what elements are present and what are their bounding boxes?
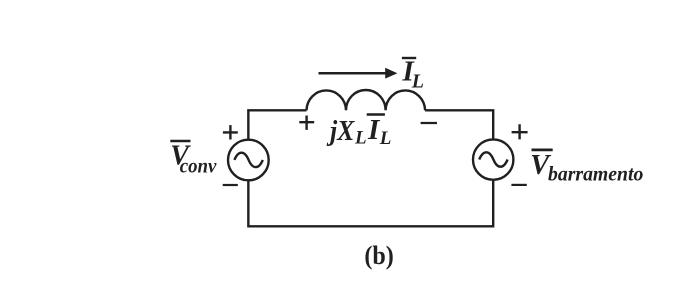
minus sign of V_barramento xyxy=(511,184,526,186)
overbar of V_barramento xyxy=(532,149,553,152)
wire top-right segment xyxy=(425,110,493,140)
wire bottom xyxy=(248,180,493,226)
minus sign of V_conv xyxy=(223,184,238,186)
sine wave inside V_conv xyxy=(234,153,262,167)
sine wave inside V_barramento xyxy=(479,152,507,166)
plus sign of V_barramento xyxy=(512,124,528,139)
svg-text:jX: jX xyxy=(326,115,355,147)
svg-text:(b): (b) xyxy=(364,242,393,270)
overbar of V_conv xyxy=(170,140,190,143)
overbar of I_L (inductor label) xyxy=(367,113,385,116)
minus sign of inductor voltage xyxy=(421,122,437,124)
plus sign of V_conv xyxy=(223,125,238,139)
current arrow I_L head xyxy=(385,68,397,79)
inductor L (jXL) xyxy=(307,90,426,110)
plus sign of inductor voltage xyxy=(299,116,314,130)
source V_conv circle xyxy=(228,140,269,181)
svg-text:L: L xyxy=(411,71,424,93)
overbar of I_L (arrow label) xyxy=(402,57,416,59)
current arrow I_L shaft xyxy=(319,72,387,75)
svg-text:barramento: barramento xyxy=(548,163,643,186)
wire top-left segment xyxy=(248,110,306,140)
svg-text:conv: conv xyxy=(180,156,217,178)
svg-text:L: L xyxy=(379,128,392,149)
source V_barramento circle xyxy=(473,139,513,179)
svg-text:L: L xyxy=(354,128,367,149)
